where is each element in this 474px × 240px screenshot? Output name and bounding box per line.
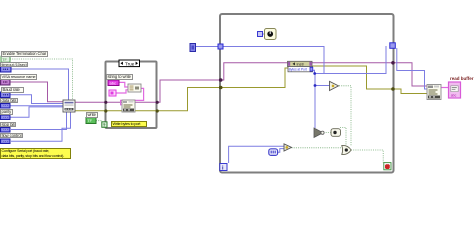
VISA Read icon: [427, 85, 441, 100]
wire: error from property node to right border (olive): [313, 66, 394, 89]
wire: Or output to stop terminal (green dashed): [351, 150, 383, 163]
comment: Configure Serial port: [0, 148, 71, 159]
tunnel: purple at case right: [156, 101, 159, 104]
label: data bits: [0, 98, 18, 104]
wire: bytes branch to compare triangle (blue): [315, 85, 330, 87]
wire: VISA resource through case to loop (purple): [75, 80, 221, 102]
wire: bytes count to right tunnel (blue): [315, 46, 387, 74]
wire: wait ms constant (blue): [263, 33, 265, 35]
label: VISA resource name: [0, 74, 37, 80]
label: write: [86, 112, 98, 118]
terminal: string to write (abc): [108, 80, 119, 86]
wire: string constant to concat (pink): [116, 90, 128, 93]
junction: bytes branch: [314, 84, 317, 87]
svg-text:abc: abc: [451, 93, 457, 97]
svg-text:Bytes at Port: Bytes at Port: [289, 67, 307, 71]
tunnel: blue bytes at loop right: [390, 43, 396, 49]
wire: VISA resource name to configure (purple): [10, 82, 63, 102]
terminal: data bits numeric: [1, 104, 11, 109]
wire: write boolean to case selector (green dashed): [96, 120, 102, 122]
tunnel: olive at case right: [156, 109, 159, 112]
concatenate strings icon: [128, 84, 141, 92]
label: stop bits: [0, 122, 16, 128]
wire: numeric constant to compare (blue): [278, 149, 284, 153]
wire: error inside loop to property node (olive): [221, 68, 289, 88]
tunnel: blue indicator at loop left: [218, 44, 223, 49]
label: read buffer: [450, 76, 474, 81]
wire: data bits (blue): [10, 105, 63, 107]
tunnel: purple at loop right: [391, 61, 395, 65]
wire: iteration terminal to compare (blue): [229, 146, 284, 163]
loop iteration terminal: [220, 164, 227, 172]
tunnel: purple at loop left: [219, 78, 223, 82]
svg-text:abc: abc: [110, 81, 116, 86]
wire: compare triangle output down to Or (green dashed): [339, 86, 351, 146]
wire: equal compare to Or (green dashed): [292, 147, 342, 149]
tunnel: olive at loop left: [219, 86, 223, 90]
tunnel: purple at case left: [104, 101, 107, 104]
wire: error out configure through case (olive): [75, 88, 221, 111]
junction: node output: [313, 72, 316, 75]
terminal: timeout numeric: [1, 67, 12, 73]
label: Baud rate: [1, 87, 24, 93]
equal compare icon: [284, 144, 292, 151]
indicator: bytes at port (small blue): [190, 44, 196, 52]
svg-text:Instr: Instr: [297, 62, 305, 66]
terminal: Enable Termination Char (TF): [1, 56, 10, 62]
wire: flow control (blue): [11, 112, 71, 141]
wire: string to write to concat (pink): [119, 82, 128, 87]
compare bytes triangle icon: [330, 81, 339, 90]
label: parity: [0, 109, 13, 115]
wire: bytes at port to indicator (blue): [196, 47, 325, 74]
svg-text:True: True: [125, 61, 135, 66]
tunnel: olive at loop right: [391, 87, 395, 91]
wire: enable termination char (green dashed): [10, 59, 73, 100]
svg-text:?: ?: [103, 123, 106, 128]
case selector terminal: [102, 122, 107, 128]
terminal: flow control numeric: [1, 139, 11, 144]
wire: bytes vertical to greater-than-zero (blue): [314, 74, 316, 129]
wait (ms) icon (metronome): [265, 29, 277, 40]
comment: Write bytes to port: [111, 121, 147, 127]
wire: VISA Read to read buffer (pink): [441, 87, 448, 89]
wire: icon2 output to Or (green dashed): [340, 127, 346, 145]
wire: VISA resource outside loop to VISA Read (purple): [394, 63, 428, 86]
loop stop terminal: [384, 163, 391, 170]
numeric constant (rounded): [269, 149, 278, 156]
svg-text:TF: TF: [87, 118, 92, 123]
VISA Configure Serial Port icon: [63, 100, 75, 112]
terminal: VISA resource name: [1, 79, 11, 85]
indicator: read buffer: [449, 82, 461, 98]
tunnel: olive at case left: [104, 109, 107, 112]
wire: stop bits (blue): [11, 112, 67, 130]
terminal: baud rate numeric: [1, 92, 11, 98]
wire: property node output (blue): [313, 70, 315, 73]
property node: Instr: [288, 61, 313, 72]
terminal: stop bits numeric: [1, 128, 11, 133]
wire: greater-than-zero output (green dashed): [324, 131, 332, 133]
wire: parity (blue): [10, 107, 63, 117]
string constant (pink): [109, 90, 116, 96]
terminal: write boolean (TF): [86, 118, 96, 124]
case selector header: [119, 60, 140, 67]
wire: VISA resource inside loop to property node (purple): [221, 63, 288, 80]
wait (ms) constant: [258, 32, 263, 37]
wire: concat to VISA Write (pink): [121, 88, 144, 104]
case structure: [106, 62, 157, 129]
while loop: [220, 14, 394, 173]
greater than zero icon: [314, 128, 324, 138]
Or gate icon: [342, 145, 351, 154]
wire: bytes count outside loop to VISA Read (blue): [397, 48, 427, 89]
VISA Write icon: [122, 100, 135, 112]
wire: timeout (blue): [11, 69, 69, 100]
label: timeout (10sec): [0, 62, 28, 68]
wire: VISA resource from property node to right border (purple): [312, 62, 394, 64]
label: flow control: [0, 133, 23, 139]
wire: baud rate (blue): [10, 95, 63, 104]
label: string to write: [106, 74, 133, 80]
icon2 (select/not): [331, 129, 341, 137]
wire: error outside loop to VISA Read (olive): [394, 89, 428, 94]
label: Enable Termination Char: [1, 51, 48, 57]
terminal: parity numeric: [1, 115, 11, 120]
